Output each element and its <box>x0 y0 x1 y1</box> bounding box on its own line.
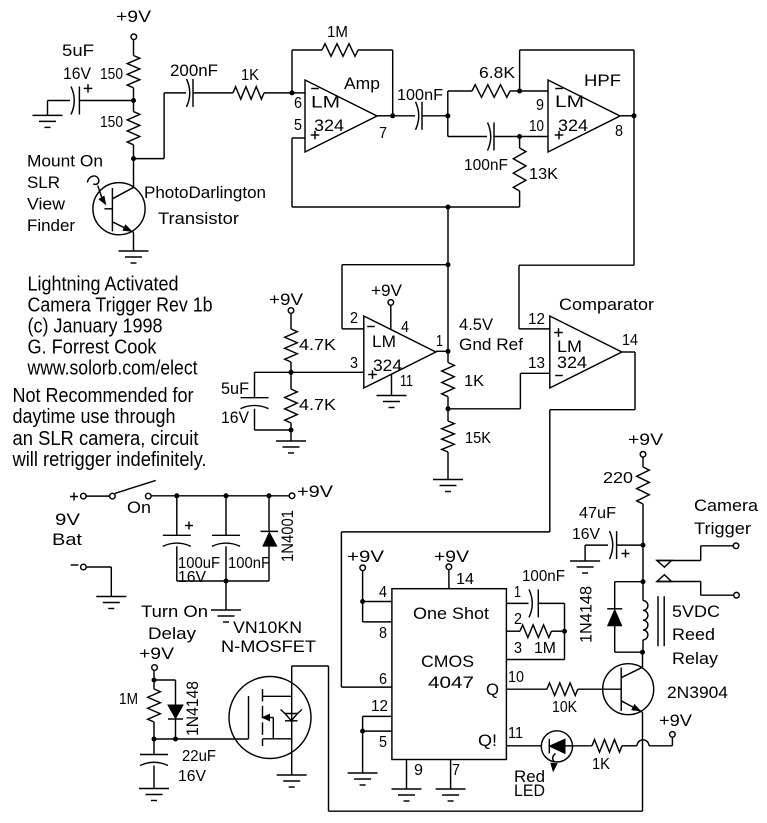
svg-text:100nF: 100nF <box>522 568 565 585</box>
op-amp U1C gnd-ref buffer LM324 <box>364 316 436 388</box>
svg-text:5: 5 <box>294 117 302 134</box>
svg-text:N-MOSFET: N-MOSFET <box>221 637 316 656</box>
node B junction (phototransistor collector) <box>131 156 136 161</box>
relay top junction <box>641 543 646 548</box>
svg-text:G. Forrest Cook: G. Forrest Cook <box>28 337 158 359</box>
svg-text:8: 8 <box>615 123 623 140</box>
svg-text:7: 7 <box>452 762 460 779</box>
+9V rail from switch <box>151 495 289 497</box>
svg-text:324: 324 <box>558 116 588 135</box>
svg-text:Relay: Relay <box>672 649 719 668</box>
wire +9V to delay node <box>153 670 155 680</box>
pin 2 wire <box>506 630 520 632</box>
svg-text:SLR: SLR <box>27 173 60 192</box>
pin 8 wire <box>362 602 364 622</box>
resistor 150 upper <box>127 56 140 88</box>
pin 4 junction <box>360 599 365 604</box>
comparator output wire to one-shot <box>622 351 635 353</box>
wire pins 12/5 to ground <box>362 731 364 773</box>
camera trigger terminal lower <box>734 592 740 598</box>
svg-text:3: 3 <box>350 355 358 372</box>
LED D3 Red <box>541 731 572 762</box>
filter bottom rail wire <box>177 580 269 582</box>
ground (battery -) <box>96 596 126 598</box>
4.5V node vertical wire <box>447 207 449 265</box>
power +9V terminal (LED) <box>670 732 676 738</box>
node A junction <box>131 98 136 103</box>
svg-text:1: 1 <box>436 333 443 350</box>
svg-text:11: 11 <box>508 725 523 742</box>
wire R 1K to pin 6 node <box>264 92 292 94</box>
resistor 13K <box>519 137 521 149</box>
relay core bars <box>657 596 659 646</box>
svg-text:4.5V: 4.5V <box>459 315 494 334</box>
transistor Q3 2N3904 <box>603 664 654 715</box>
wire into op-amp pin 6 <box>292 92 305 94</box>
svg-text:1K: 1K <box>241 67 259 84</box>
svg-text:www.solorb.com/elect: www.solorb.com/elect <box>27 358 198 380</box>
svg-text:Finder: Finder <box>27 216 75 235</box>
capacitor 100nF timing <box>529 589 532 617</box>
svg-text:Amp: Amp <box>344 74 380 93</box>
svg-text:10K: 10K <box>552 699 577 716</box>
op-amp U1D Comparator LM324 <box>550 316 622 388</box>
svg-text:+9V: +9V <box>139 644 175 663</box>
svg-text:Comparator: Comparator <box>559 295 654 314</box>
relay coil bottom junction <box>640 650 645 655</box>
divider bottom junction <box>289 428 294 433</box>
ground (pin 9) <box>392 788 422 790</box>
wire into op-amp pin 9 <box>520 90 548 92</box>
wire HPF output to comparator pin 12 <box>633 116 635 265</box>
svg-text:13: 13 <box>528 355 545 372</box>
svg-text:Q!: Q! <box>478 731 497 750</box>
svg-text:Mount On: Mount On <box>27 152 103 171</box>
HPF feedback wire <box>519 50 521 91</box>
svg-text:daytime use through: daytime use through <box>13 406 176 428</box>
svg-text:an SLR camera, circuit: an SLR camera, circuit <box>13 428 199 450</box>
svg-text:7: 7 <box>379 125 387 142</box>
resistor 1K input <box>233 87 264 100</box>
svg-text:+9V: +9V <box>371 281 403 300</box>
svg-text:Q: Q <box>486 680 499 699</box>
wire divider to op-amp pin 3 <box>291 371 364 373</box>
delay top junction <box>152 678 157 683</box>
svg-text:1: 1 <box>514 584 521 601</box>
ground (22uF) <box>139 788 169 790</box>
resistor 10K <box>547 683 578 696</box>
svg-text:LM: LM <box>372 332 396 351</box>
ground (15K) <box>433 479 463 481</box>
ground (Q1 emitter) <box>119 250 149 252</box>
resistor 6.8K <box>447 91 449 116</box>
ground (pins 12/5) <box>348 772 378 774</box>
wire LED to R 1K <box>573 745 592 747</box>
svg-text:100nF: 100nF <box>397 87 443 104</box>
resistor 15K <box>447 409 449 421</box>
power +9V terminal (relay) <box>640 452 646 458</box>
resistor 1K LED <box>592 740 622 753</box>
svg-text:15K: 15K <box>465 430 491 447</box>
pin 12 wire <box>363 715 392 717</box>
pin 11 Q! wire <box>506 745 541 747</box>
pin 9 node junction <box>517 89 522 94</box>
svg-text:Reed: Reed <box>672 625 715 644</box>
HPF output junction <box>632 113 637 118</box>
wire op-amp pin 5 <box>292 137 305 139</box>
pin 10 node junction <box>517 134 522 139</box>
svg-text:150: 150 <box>100 114 123 131</box>
svg-text:6: 6 <box>294 95 302 112</box>
resistor 1K divider <box>447 351 449 362</box>
photon arrow into Q1 <box>87 176 99 184</box>
camera trigger terminal upper <box>733 543 739 549</box>
svg-text:2: 2 <box>514 611 522 628</box>
svg-text:4.7K: 4.7K <box>299 337 336 354</box>
IC U2 CMOS 4047 One Shot box <box>392 589 507 760</box>
relay coil L1 <box>642 582 644 601</box>
svg-text:16V: 16V <box>572 526 600 543</box>
capacitor 22uF 16V delay <box>153 739 155 755</box>
pin 6 wire <box>341 686 392 688</box>
switch On <box>110 493 116 499</box>
phototransistor Q1 PhotoDarlington <box>93 183 145 235</box>
svg-text:VN10KN: VN10KN <box>233 618 302 637</box>
pin 9 wire to ground <box>406 760 408 790</box>
svg-text:Camera Trigger Rev 1b: Camera Trigger Rev 1b <box>28 295 213 317</box>
svg-text:+9V: +9V <box>628 430 664 449</box>
svg-text:14: 14 <box>456 571 474 588</box>
svg-text:Transistor: Transistor <box>158 209 239 228</box>
svg-text:2: 2 <box>350 310 358 327</box>
svg-text:3: 3 <box>514 640 522 657</box>
power +9V terminal (U1C pin 4) <box>388 300 394 306</box>
svg-text:+9V: +9V <box>347 547 385 566</box>
svg-text:14: 14 <box>622 332 638 349</box>
wire +9V to pin 4 <box>362 571 364 602</box>
wire +9V to pin 4 <box>390 305 392 329</box>
wire Q1 emitter to ground <box>133 232 135 251</box>
svg-text:1M: 1M <box>534 640 556 657</box>
capacitor 200nF <box>187 79 190 107</box>
HPF input node junction <box>445 113 450 118</box>
wire Q2 drain rail <box>291 666 293 696</box>
svg-text:+9V: +9V <box>269 290 304 309</box>
svg-text:9V: 9V <box>55 510 81 529</box>
pin 5 wire <box>362 716 364 731</box>
relay coil top junction <box>641 579 646 584</box>
capacitor 100uF 16V <box>176 496 178 536</box>
ground (Q2 source) <box>277 774 307 776</box>
battery negative terminal <box>71 564 79 566</box>
wire Q3 emitter to return rail <box>642 712 644 811</box>
transistor Q2 VN10KN N-MOSFET <box>229 677 311 759</box>
power +9V terminal (pin 4) <box>360 565 366 571</box>
svg-text:10: 10 <box>529 118 544 135</box>
ground (U1C pin 11) <box>377 395 407 397</box>
capacitor 47uF 16V <box>617 544 643 546</box>
capacitor 100nF bypass <box>225 496 227 536</box>
capacitor 5uF 16V electrolytic <box>71 87 74 115</box>
power +9V terminal (divider) <box>288 308 294 314</box>
delay gate junction <box>152 737 157 742</box>
HPF output wire <box>620 115 634 117</box>
svg-text:47uF: 47uF <box>579 505 616 522</box>
svg-text:6.8K: 6.8K <box>479 65 515 82</box>
diode 1N4148 flyback <box>615 581 643 583</box>
wire to ground (filter) <box>225 581 227 610</box>
gate wire <box>154 738 249 740</box>
svg-text:4: 4 <box>401 319 409 336</box>
pin 6 node junction <box>290 90 295 95</box>
pin 5 junction <box>360 729 365 734</box>
wire into op-amp pin 10 <box>520 136 548 138</box>
svg-text:12: 12 <box>528 311 545 328</box>
svg-text:1K: 1K <box>592 756 610 773</box>
wire C 5uF to ground <box>48 100 71 102</box>
bottom rail junction <box>224 579 229 584</box>
svg-text:Camera: Camera <box>694 496 759 515</box>
diode branch junction <box>173 737 178 742</box>
wire pin 11 to ground <box>391 374 393 395</box>
output junction (1M feedback) <box>390 113 395 118</box>
svg-text:will retrigger indefinitely.: will retrigger indefinitely. <box>12 449 207 471</box>
svg-text:2N3904: 2N3904 <box>667 683 728 702</box>
capacitor 100nF HPF <box>447 116 449 137</box>
svg-text:5uF: 5uF <box>62 41 94 60</box>
wire resistor to node A <box>133 88 135 101</box>
wire to gnd-ref op-amp feedback <box>342 264 448 266</box>
svg-text:1K: 1K <box>464 373 484 390</box>
power +9V terminal (pin 14) <box>446 564 452 570</box>
wire Q2 source to ground <box>291 739 293 775</box>
svg-text:On: On <box>127 498 151 517</box>
svg-text:Gnd Ref: Gnd Ref <box>459 335 523 354</box>
resistor 1M timing <box>520 625 551 638</box>
wire battery - to ground <box>86 566 111 568</box>
svg-text:4047: 4047 <box>428 673 474 692</box>
svg-text:5VDC: 5VDC <box>672 602 720 621</box>
svg-text:LM: LM <box>311 93 340 112</box>
svg-text:16V: 16V <box>221 408 250 427</box>
pin 3 wire <box>506 659 564 661</box>
svg-text:1M: 1M <box>119 691 138 708</box>
resistor 220 <box>642 457 644 467</box>
resistor 1M feedback <box>291 50 293 93</box>
svg-text:16V: 16V <box>178 569 206 586</box>
capacitor 100nF coupling <box>416 102 419 130</box>
rail junction (100nF) <box>224 493 229 498</box>
wire battery + to switch <box>86 495 109 497</box>
svg-text:22uF: 22uF <box>182 748 216 765</box>
resistor 150 lower <box>133 101 135 112</box>
svg-text:+9V: +9V <box>434 547 470 566</box>
svg-text:(c) January 1998: (c) January 1998 <box>28 316 163 338</box>
wire output to C 100nF <box>393 115 415 117</box>
svg-text:+9V: +9V <box>116 7 152 26</box>
bottom return rail wire <box>329 810 643 812</box>
battery positive terminal <box>70 496 78 498</box>
svg-text:HPF: HPF <box>584 71 621 90</box>
wire node A to C 5uF <box>79 100 133 102</box>
relay contact lower <box>657 581 701 583</box>
svg-text:Not Recommended for: Not Recommended for <box>13 385 194 407</box>
diode 1N4001 <box>268 496 270 532</box>
svg-text:4: 4 <box>379 584 387 601</box>
svg-text:PhotoDarlington: PhotoDarlington <box>144 183 266 202</box>
ground (5uF) <box>33 114 63 116</box>
svg-text:Bat: Bat <box>52 530 82 549</box>
ground (divider) <box>290 430 292 441</box>
svg-text:1N4001: 1N4001 <box>278 510 297 562</box>
svg-text:9: 9 <box>536 97 544 114</box>
svg-text:Turn On: Turn On <box>141 602 208 621</box>
svg-text:6: 6 <box>379 671 387 688</box>
4.5V upper junction <box>446 262 451 267</box>
svg-text:100nF: 100nF <box>228 555 270 572</box>
svg-text:1N4148: 1N4148 <box>183 681 202 736</box>
svg-text:One Shot: One Shot <box>413 604 489 623</box>
gnd-ref rail wire <box>292 206 520 208</box>
svg-text:LED: LED <box>514 781 545 800</box>
wire C 100nF to HPF input node <box>422 115 448 117</box>
svg-text:CMOS: CMOS <box>421 652 474 671</box>
svg-text:10: 10 <box>508 669 524 686</box>
4.5V node wire to op-amp output <box>447 265 449 352</box>
capacitor 5uF 16V divider <box>255 371 292 373</box>
svg-text:Lightning Activated: Lightning Activated <box>28 274 179 296</box>
gnd-ref rail junction <box>446 205 451 210</box>
svg-text:150: 150 <box>100 66 123 83</box>
svg-text:8: 8 <box>379 625 387 642</box>
wire node B to C 200nF <box>134 158 165 160</box>
svg-text:220: 220 <box>603 470 633 487</box>
resistor 1M delay <box>153 680 155 689</box>
resistor 4.7K upper <box>290 313 292 329</box>
ground (47uF) <box>570 560 600 562</box>
rail junction (1N4001) <box>267 493 272 498</box>
svg-text:12: 12 <box>371 698 388 715</box>
svg-text:9: 9 <box>414 762 423 779</box>
svg-text:LM: LM <box>555 92 584 111</box>
svg-text:16V: 16V <box>178 768 206 785</box>
svg-text:324: 324 <box>314 116 344 135</box>
svg-text:13K: 13K <box>529 166 558 183</box>
pin 7 wire to ground <box>450 760 452 790</box>
power +9V terminal (photo bias) <box>131 34 137 40</box>
wire Q3 collector to relay <box>642 652 644 667</box>
divider mid junction <box>289 370 294 375</box>
svg-text:Delay: Delay <box>148 624 197 643</box>
relay contact upper <box>657 560 701 562</box>
wire cap to timing node <box>538 602 564 604</box>
svg-text:324: 324 <box>557 353 587 372</box>
svg-text:16V: 16V <box>63 64 92 83</box>
op-amp U1C output wire <box>436 350 448 352</box>
wire to relay coil node <box>642 545 644 582</box>
svg-text:11: 11 <box>400 373 413 390</box>
rail junction (100uF) <box>174 493 179 498</box>
op-amp U1B HPF LM324 <box>548 80 620 152</box>
resistor 4.7K lower <box>290 372 292 389</box>
timing node junction <box>562 629 567 634</box>
svg-text:View: View <box>27 195 66 214</box>
svg-text:324: 324 <box>373 356 402 375</box>
pin 14 wire <box>448 570 450 589</box>
svg-text:1N4148: 1N4148 <box>577 586 596 643</box>
wire +9V to R 150 upper <box>133 40 135 56</box>
svg-text:1M: 1M <box>327 24 348 41</box>
diode 1N4148 delay <box>154 679 176 681</box>
pin 10 Q wire <box>506 688 547 690</box>
pin 1 wire <box>506 602 528 604</box>
wire Q2 drain-source internal <box>291 696 293 739</box>
wire C 200nF to R 1K <box>193 92 233 94</box>
comparator threshold junction <box>446 406 451 411</box>
op-amp U1A output wire <box>377 115 393 117</box>
op-amp U1C output junction <box>446 349 451 354</box>
svg-text:4.7K: 4.7K <box>299 397 336 414</box>
svg-text:Trigger: Trigger <box>694 519 751 538</box>
svg-text:+9V: +9V <box>297 482 334 501</box>
op-amp U1A Amp LM324 <box>305 80 377 152</box>
wire to comparator pin 13 <box>448 408 520 410</box>
ground (filter caps) <box>211 609 241 611</box>
wire R 1K to +9V with hop <box>622 745 637 747</box>
svg-text:200nF: 200nF <box>170 61 218 80</box>
pin 4 wire <box>363 601 392 603</box>
svg-text:+9V: +9V <box>659 711 693 730</box>
power +9V terminal (delay) <box>152 665 158 671</box>
svg-text:100nF: 100nF <box>464 157 508 174</box>
svg-text:5uF: 5uF <box>221 379 249 398</box>
svg-text:5: 5 <box>379 734 387 751</box>
ground (pin 7) <box>436 788 466 790</box>
